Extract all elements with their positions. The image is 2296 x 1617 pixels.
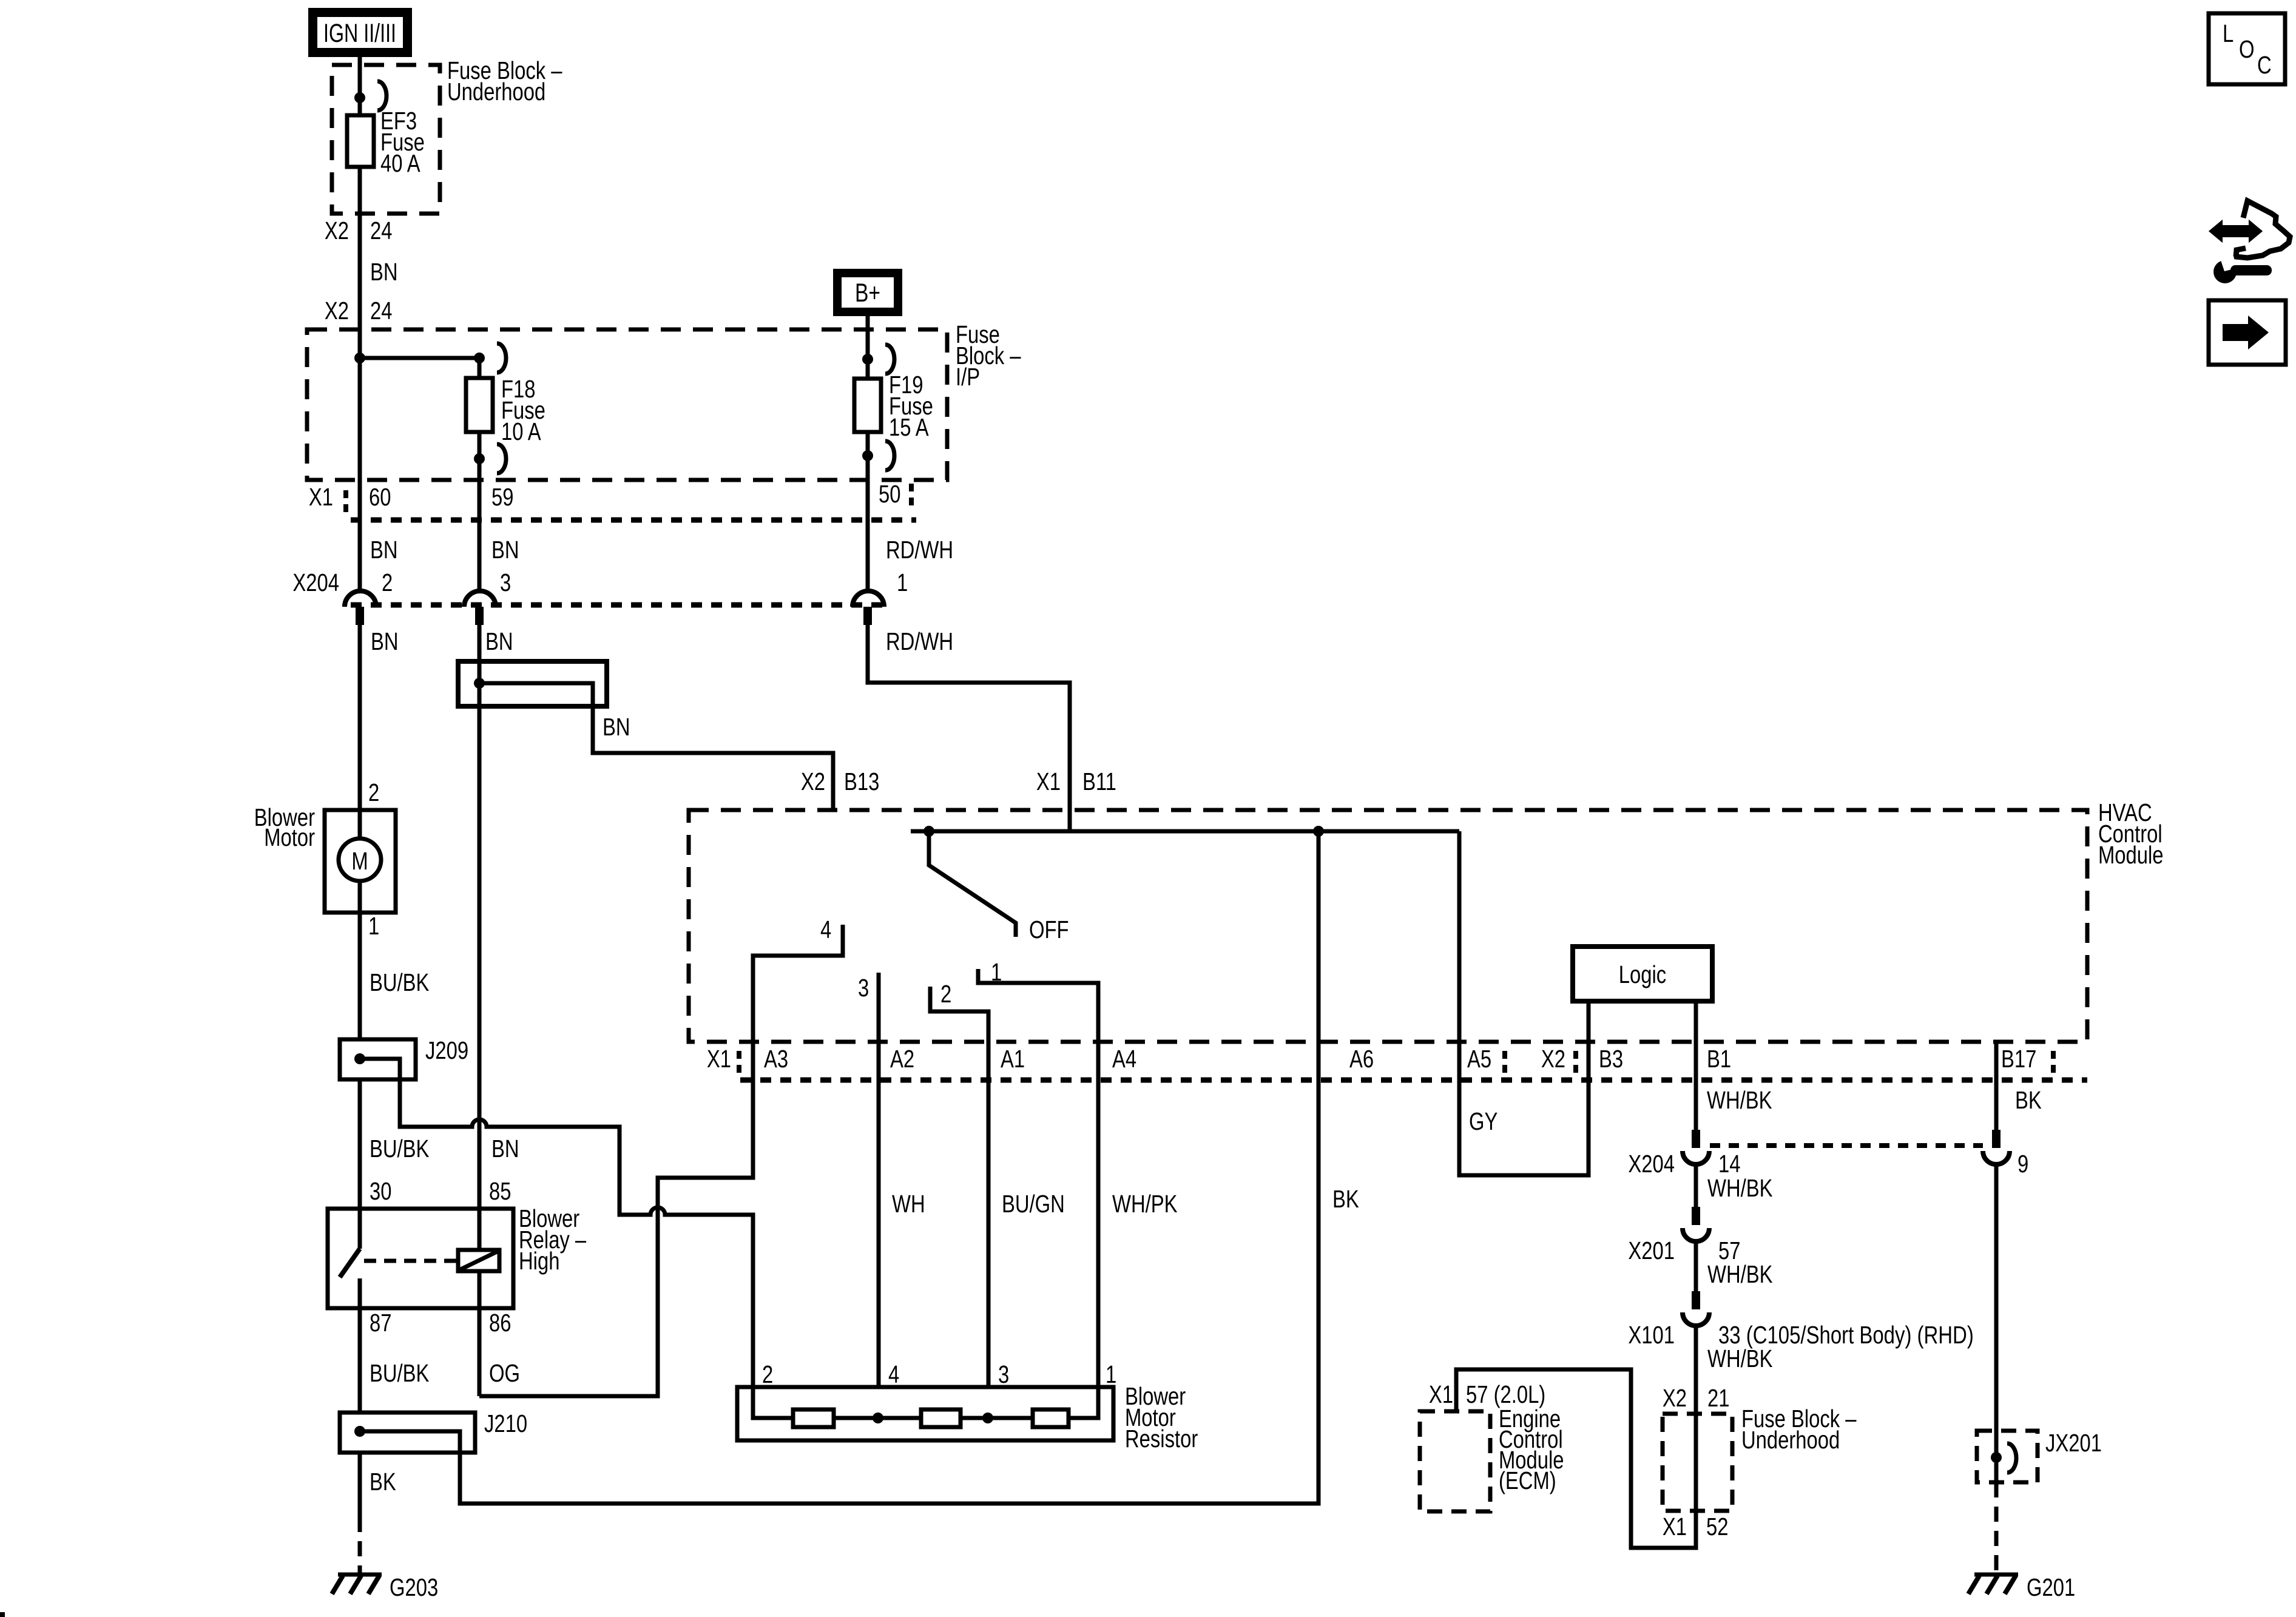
svg-text:BU/BK: BU/BK bbox=[370, 1359, 430, 1386]
svg-text:A4: A4 bbox=[1112, 1044, 1136, 1072]
HVAC control module dashed box bbox=[689, 798, 2164, 1042]
svg-text:1: 1 bbox=[1106, 1360, 1116, 1388]
connector X201-57 pin bbox=[1683, 1207, 1709, 1241]
wire relay 87 bbox=[358, 1278, 362, 1413]
fuse clip EF3 bbox=[377, 81, 387, 110]
node spine/branch bbox=[354, 353, 365, 363]
svg-text:21: 21 bbox=[1707, 1383, 1729, 1411]
node F19 top bbox=[862, 354, 873, 365]
node J209 bbox=[354, 1053, 365, 1064]
connector row A/B labels bbox=[707, 1044, 2036, 1072]
wire B1 WH/BK from logic bbox=[1694, 1001, 1698, 1130]
wire BN relay feed bbox=[478, 625, 482, 1250]
wire labels BN BN RD/WH (upper) bbox=[370, 535, 953, 563]
svg-text:BU/BK: BU/BK bbox=[370, 1134, 430, 1162]
JX201 splice dashed box bbox=[1977, 1428, 2102, 1482]
node bus A6 bbox=[1313, 826, 1324, 837]
svg-text:2: 2 bbox=[762, 1360, 773, 1388]
switch arm OFF bbox=[929, 831, 1016, 937]
svg-text:M: M bbox=[351, 846, 368, 874]
svg-text:L: L bbox=[2223, 19, 2234, 47]
svg-text:J209: J209 bbox=[425, 1036, 468, 1064]
connector X204-3 bbox=[464, 591, 496, 625]
svg-text:X204: X204 bbox=[292, 568, 339, 596]
fuse clip F18 bottom bbox=[497, 444, 506, 473]
adjust icon (arrow, panel, wrench) bbox=[2210, 201, 2290, 283]
wire BK to JX201 splice bbox=[1994, 1164, 1999, 1482]
svg-text:40 A: 40 A bbox=[380, 149, 420, 177]
engine control module dashed box bbox=[1420, 1404, 1564, 1511]
svg-text:4: 4 bbox=[820, 915, 831, 943]
wire J210 tap to BK bus bbox=[360, 1431, 460, 1504]
svg-text:3: 3 bbox=[998, 1360, 1009, 1388]
separator X1 bbox=[343, 490, 348, 516]
node F18 top bbox=[474, 353, 485, 363]
fuse clip F19 top bbox=[885, 345, 894, 374]
pin label X2 B13 bbox=[801, 767, 879, 795]
connector X204-1 bbox=[853, 591, 884, 625]
switch contact 3 bbox=[858, 973, 879, 1387]
wire J209 tap to resistor pin 2 bbox=[360, 1059, 753, 1387]
svg-text:10 A: 10 A bbox=[501, 417, 541, 445]
svg-text:24: 24 bbox=[370, 296, 392, 324]
pin label X1 52 bbox=[1663, 1512, 1729, 1540]
svg-text:BN: BN bbox=[370, 535, 398, 563]
svg-text:Underhood: Underhood bbox=[1741, 1425, 1840, 1453]
blower motor bbox=[254, 778, 396, 939]
page corner mark bbox=[0, 1612, 5, 1617]
splice J209 bbox=[340, 1036, 468, 1079]
connector X204-2 bbox=[345, 591, 376, 625]
connector labels X204 14 9 bbox=[1628, 1149, 2028, 1177]
svg-text:X101: X101 bbox=[1628, 1320, 1675, 1348]
blower relay high bbox=[328, 1204, 586, 1308]
splice box bbox=[458, 661, 607, 706]
svg-text:4: 4 bbox=[888, 1360, 899, 1388]
pin label X2 24 (row 1) bbox=[325, 216, 393, 244]
node EF3 top bbox=[354, 92, 365, 103]
connector labels X201 57 bbox=[1628, 1236, 1740, 1264]
svg-text:X1: X1 bbox=[1663, 1512, 1687, 1540]
svg-text:G201: G201 bbox=[2027, 1573, 2075, 1601]
svg-text:BN: BN bbox=[370, 257, 398, 285]
svg-text:BK: BK bbox=[370, 1467, 396, 1495]
svg-text:85: 85 bbox=[489, 1176, 511, 1204]
svg-text:X201: X201 bbox=[1628, 1236, 1675, 1264]
svg-text:BK: BK bbox=[1332, 1184, 1359, 1212]
wire WH/BK to X201 bbox=[1694, 1164, 1698, 1207]
svg-text:X2: X2 bbox=[801, 767, 825, 795]
svg-text:BN: BN bbox=[603, 712, 630, 740]
connector row X1 labels bbox=[309, 479, 901, 510]
wire fuse block X1-52 to ECM X1-57 bbox=[1456, 1369, 1696, 1548]
wire IGN to fuse EF3 bbox=[358, 57, 362, 115]
svg-text:A5: A5 bbox=[1467, 1044, 1491, 1072]
wire motor 1 BU/BK bbox=[358, 881, 362, 1039]
svg-text:WH/BK: WH/BK bbox=[1707, 1260, 1773, 1288]
svg-text:3: 3 bbox=[500, 568, 511, 596]
wire labels BN BN RD/WH (lower) bbox=[371, 627, 953, 655]
svg-text:A1: A1 bbox=[1001, 1044, 1025, 1072]
fuse block underhood (bottom) dashed box bbox=[1663, 1404, 1857, 1511]
svg-text:X1: X1 bbox=[1429, 1380, 1453, 1408]
svg-text:X2: X2 bbox=[1541, 1044, 1565, 1072]
splice J210 bbox=[340, 1409, 527, 1453]
connector line X204 (right) bbox=[1710, 1143, 1983, 1148]
resistor element 1 bbox=[793, 1409, 834, 1427]
svg-text:86: 86 bbox=[489, 1308, 511, 1336]
svg-text:BN: BN bbox=[491, 535, 519, 563]
wire WH/BK to X101 bbox=[1694, 1241, 1698, 1291]
svg-text:B3: B3 bbox=[1599, 1044, 1623, 1072]
next-page arrow box bbox=[2209, 300, 2286, 365]
svg-text:59: 59 bbox=[491, 482, 513, 510]
svg-text:B+: B+ bbox=[855, 279, 880, 308]
node switch pivot bbox=[923, 826, 934, 837]
pin label X2 24 (row 2) bbox=[325, 296, 393, 324]
svg-text:15 A: 15 A bbox=[889, 413, 929, 441]
resistor internal bus bbox=[753, 1387, 1098, 1418]
separator after B17 bbox=[2051, 1051, 2056, 1077]
svg-text:B13: B13 bbox=[844, 767, 879, 795]
svg-text:X204: X204 bbox=[1628, 1149, 1675, 1177]
svg-text:B17: B17 bbox=[2001, 1044, 2036, 1072]
svg-text:JX201: JX201 bbox=[2045, 1428, 2102, 1456]
svg-text:Module: Module bbox=[2098, 840, 2164, 868]
svg-text:X1: X1 bbox=[1036, 767, 1061, 795]
wire BU/BK to relay 30 bbox=[358, 1079, 362, 1249]
fuse F18 10A bbox=[466, 374, 545, 445]
svg-text:2: 2 bbox=[368, 778, 379, 806]
svg-text:WH/BK: WH/BK bbox=[1707, 1085, 1772, 1113]
wire BN motor feed bbox=[358, 625, 362, 839]
fuse clip F19 bottom bbox=[885, 441, 894, 470]
svg-text:OFF: OFF bbox=[1029, 915, 1069, 943]
connector X204-9 pin bbox=[1983, 1130, 2010, 1164]
svg-text:BN: BN bbox=[371, 627, 399, 655]
svg-text:RD/WH: RD/WH bbox=[886, 627, 953, 655]
pin label X1 57 (2.0L) bbox=[1429, 1380, 1545, 1408]
wire F18 to connector X204-3 bbox=[478, 432, 482, 590]
wire splice tap BN to HVAC B13 bbox=[479, 683, 833, 810]
wire A5 GY loop to B3 bbox=[1459, 831, 1589, 1175]
svg-text:BN: BN bbox=[491, 1134, 519, 1162]
wire HVAC switch bus bbox=[911, 829, 1459, 834]
wire BK below J210 bbox=[358, 1453, 362, 1517]
resistor element 2 bbox=[921, 1409, 961, 1427]
wire branch to F18 bbox=[360, 358, 479, 378]
switch contact 1 bbox=[978, 957, 1098, 1387]
svg-text:J210: J210 bbox=[484, 1409, 527, 1437]
node resistor pin 4 bbox=[873, 1413, 883, 1423]
relay actuation dashed link bbox=[364, 1259, 456, 1263]
relay switch arm bbox=[340, 1249, 360, 1277]
separator after A5 bbox=[1502, 1051, 1507, 1077]
power symbol B+ bbox=[833, 269, 902, 316]
svg-text:RD/WH: RD/WH bbox=[886, 535, 953, 563]
svg-text:X2: X2 bbox=[1663, 1383, 1687, 1411]
svg-text:9: 9 bbox=[2017, 1149, 2028, 1177]
svg-text:IGN II/III: IGN II/III bbox=[323, 19, 396, 48]
wire F19 down to connector X204-1 bbox=[866, 432, 870, 590]
svg-text:C: C bbox=[2257, 50, 2272, 78]
loc box bbox=[2209, 13, 2285, 84]
connector line X1 row bbox=[351, 518, 916, 523]
wire WH/BK to fuse block underhood X2-21 bbox=[1694, 1326, 1698, 1511]
svg-text:2: 2 bbox=[382, 568, 393, 596]
node splice BN bbox=[474, 678, 485, 689]
svg-text:50: 50 bbox=[879, 479, 900, 507]
wire A6 BK to ground bus bbox=[460, 831, 1319, 1504]
svg-text:3: 3 bbox=[858, 973, 869, 1001]
wire B17 BK to JX201 bbox=[1994, 1042, 1999, 1130]
svg-text:BU/BK: BU/BK bbox=[370, 968, 430, 996]
fuse EF3 40A bbox=[347, 106, 425, 177]
connector X101-33 pin bbox=[1683, 1291, 1709, 1326]
wire dashed lead to G203 bbox=[358, 1517, 362, 1573]
svg-text:(ECM): (ECM) bbox=[1499, 1466, 1556, 1494]
node F18 bottom bbox=[474, 453, 485, 464]
wire dashed lead to G201 bbox=[1994, 1482, 1999, 1573]
node F19 bottom bbox=[862, 450, 873, 461]
relay coil bbox=[458, 1250, 499, 1271]
svg-text:B11: B11 bbox=[1082, 767, 1116, 795]
svg-text:G203: G203 bbox=[390, 1573, 438, 1601]
svg-text:BU/GN: BU/GN bbox=[1002, 1189, 1065, 1217]
svg-text:BK: BK bbox=[2015, 1085, 2042, 1113]
svg-text:Resistor: Resistor bbox=[1125, 1424, 1198, 1452]
separator X1 (HVAC row) bbox=[737, 1051, 741, 1077]
svg-text:60: 60 bbox=[369, 482, 391, 510]
svg-text:OG: OG bbox=[489, 1359, 520, 1386]
logic box bbox=[1573, 947, 1712, 1001]
wire RD/WH to HVAC B11 bbox=[868, 625, 1070, 831]
switch contact 2 bbox=[930, 979, 988, 1387]
svg-text:1: 1 bbox=[368, 911, 379, 939]
svg-text:Logic: Logic bbox=[1619, 960, 1666, 988]
svg-text:Motor: Motor bbox=[264, 823, 315, 851]
pin label X1 B11 bbox=[1036, 767, 1116, 795]
svg-text:87: 87 bbox=[370, 1308, 391, 1336]
svg-text:52: 52 bbox=[1706, 1512, 1728, 1540]
svg-text:24: 24 bbox=[370, 216, 392, 244]
fuse block I/P dashed box bbox=[307, 320, 1021, 480]
svg-text:2: 2 bbox=[940, 979, 951, 1007]
node JX201 bbox=[1991, 1452, 2002, 1463]
svg-text:I/P: I/P bbox=[956, 362, 980, 390]
clip JX201 bbox=[2007, 1443, 2016, 1473]
svg-text:GY: GY bbox=[1469, 1107, 1497, 1135]
connector labels X101 33 bbox=[1628, 1320, 1973, 1348]
separator after X2 bbox=[1573, 1051, 1578, 1077]
svg-text:B1: B1 bbox=[1707, 1044, 1731, 1072]
ground G203 bbox=[332, 1573, 438, 1601]
resistor element 3 bbox=[1033, 1409, 1069, 1427]
svg-text:X2: X2 bbox=[325, 296, 349, 324]
wire EF3 to connector X204-2 (BN spine) bbox=[358, 167, 362, 590]
power symbol IGN II/III bbox=[308, 8, 412, 57]
pin label X2 21 bbox=[1663, 1383, 1730, 1411]
svg-text:A6: A6 bbox=[1349, 1044, 1374, 1072]
svg-text:A2: A2 bbox=[890, 1044, 914, 1072]
ground G201 bbox=[1968, 1573, 2075, 1601]
connector line HVAC row bbox=[740, 1078, 2087, 1083]
svg-text:WH/PK: WH/PK bbox=[1112, 1189, 1178, 1217]
switch contact 4 bbox=[479, 915, 843, 1396]
connector X204-14 pin bbox=[1683, 1130, 1709, 1164]
svg-text:X1: X1 bbox=[707, 1044, 731, 1072]
svg-text:High: High bbox=[519, 1246, 559, 1274]
svg-text:X2: X2 bbox=[325, 216, 349, 244]
wire B+ to F19 bbox=[866, 316, 870, 379]
svg-text:O: O bbox=[2239, 35, 2255, 62]
svg-text:Underhood: Underhood bbox=[447, 77, 545, 105]
blower motor resistor bbox=[737, 1360, 1198, 1452]
svg-text:A3: A3 bbox=[764, 1044, 788, 1072]
svg-text:1: 1 bbox=[897, 568, 908, 596]
wire relay 86 OG bbox=[478, 1271, 482, 1396]
svg-text:30: 30 bbox=[370, 1176, 391, 1204]
fuse block underhood (top) dashed box bbox=[332, 56, 562, 214]
separator after 50 bbox=[909, 484, 914, 510]
node resistor pin 3 bbox=[982, 1413, 993, 1423]
connector row X204 labels bbox=[292, 568, 908, 596]
svg-text:WH/BK: WH/BK bbox=[1707, 1344, 1773, 1372]
node J210 bbox=[354, 1426, 365, 1437]
svg-text:X1: X1 bbox=[309, 482, 333, 510]
svg-text:WH: WH bbox=[892, 1189, 925, 1217]
fuse F19 15A bbox=[854, 370, 933, 441]
svg-text:WH/BK: WH/BK bbox=[1707, 1173, 1773, 1201]
fuse clip F18 top bbox=[497, 343, 506, 373]
svg-text:BN: BN bbox=[485, 627, 513, 655]
connector line X204 row bbox=[351, 603, 888, 608]
